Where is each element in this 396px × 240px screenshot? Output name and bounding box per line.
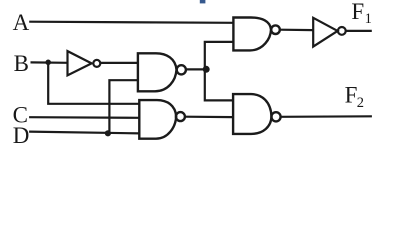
NAND G2 (inputs B' and D) <box>138 53 186 91</box>
svg-text:1: 1 <box>365 11 372 27</box>
wire A to NAND G3 input 1 <box>29 22 233 23</box>
svg-text:A: A <box>13 10 30 35</box>
NAND G3 (inputs A and X, top right) <box>233 18 279 51</box>
svg-text:2: 2 <box>357 95 364 111</box>
NAND G4 (inputs B, C, D) <box>139 100 185 139</box>
svg-text:D: D <box>13 123 30 148</box>
inverter G6 (to F1) <box>313 18 345 47</box>
wire inverter G6 output to F1 <box>346 30 372 32</box>
wire node X riser up to NAND G3 input 2 <box>205 42 234 70</box>
wire inverter G1 output to NAND G2 input 1 <box>100 62 138 64</box>
inverter G1 (B NOT gate) <box>68 51 101 75</box>
wire NAND G5 output to F2 <box>281 115 372 118</box>
wire B branch vertical drop <box>48 63 139 104</box>
junction dot on D wire <box>105 130 111 136</box>
svg-text:F: F <box>351 0 364 24</box>
wire B to inverter G1 input <box>31 61 69 64</box>
wire NAND G4 output to NAND G5 input 2 <box>185 116 233 119</box>
svg-text:B: B <box>14 51 29 76</box>
svg-text:F: F <box>345 83 358 108</box>
junction dot on B wire <box>45 60 51 66</box>
wire D to NAND G4 input 3 <box>29 132 140 134</box>
wire NAND G2 output to node X <box>186 68 205 70</box>
wire node X drop down to NAND G5 input 1 <box>205 69 233 100</box>
wire D branch riser to NAND G2 input 2 <box>109 80 138 132</box>
wire NAND G3 output to inverter G6 input <box>280 29 314 32</box>
NAND G5 (inputs X and Y, bottom right) <box>233 94 281 134</box>
blue scan artifact <box>200 0 206 3</box>
junction dot node X <box>203 66 210 73</box>
wire C to NAND G4 input 2 <box>29 116 140 119</box>
